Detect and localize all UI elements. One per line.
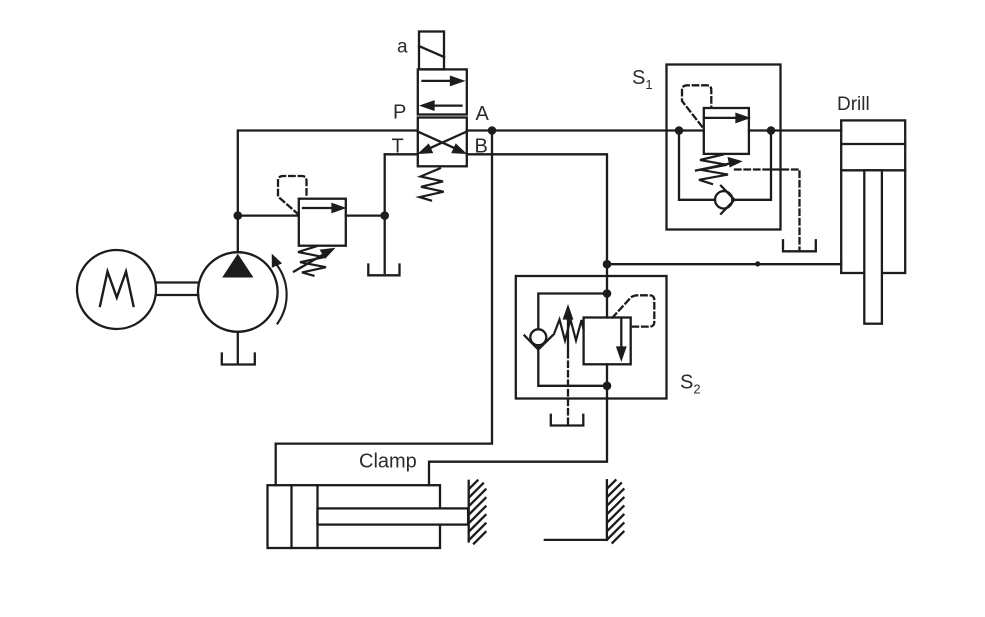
clamp cylinder body — [268, 485, 441, 548]
wire pump outlet to P port — [238, 131, 418, 253]
relief valve RV1 pilot line (dashed) — [278, 176, 307, 215]
node J4 (B line to drill rod end) — [603, 260, 612, 269]
clamp rod — [318, 508, 469, 524]
wire to drill rod end — [607, 263, 841, 265]
svg-text:Drill: Drill — [837, 94, 870, 115]
sequence valve S2 enclosure — [516, 276, 667, 399]
relief valve RV1 spring — [298, 246, 326, 275]
svg-text:Clamp: Clamp — [359, 451, 417, 473]
S2 bypass wire lower — [538, 345, 607, 386]
wire A port to S1 — [467, 129, 704, 131]
wire T port — [385, 153, 418, 155]
wire B line into S2 — [606, 264, 608, 317]
node J7 (S2 upper junction) — [603, 289, 612, 298]
tank T1 (pump suction) — [222, 354, 255, 365]
valve DV1 upper box (parallel arrows) — [418, 69, 467, 114]
svg-text:T: T — [392, 136, 404, 158]
svg-text:A: A — [476, 103, 490, 125]
S2 pilot line (dashed) — [613, 295, 655, 326]
tank T2 (T-port drain) — [368, 265, 399, 276]
tank T4 (S2 drain) — [551, 415, 584, 426]
S2 bypass wire — [538, 294, 607, 330]
valve DV1 spring — [420, 168, 444, 200]
node J1 (pump/relief tee) — [234, 211, 243, 220]
solenoid a — [419, 32, 444, 70]
S2 valve body — [584, 318, 631, 365]
relief valve RV1 body — [299, 199, 346, 246]
pump P1 — [198, 252, 278, 332]
node J8 (S2 lower junction) — [603, 382, 612, 391]
pump rotation arc — [273, 256, 287, 323]
drill rod — [864, 170, 882, 323]
svg-text:a: a — [397, 37, 408, 58]
S1 pilot line (dashed) — [682, 85, 711, 126]
S1 drain (dashed) — [735, 170, 800, 251]
S2 spring — [554, 320, 584, 341]
wire S2 outlet to clamp rod end — [429, 386, 607, 485]
svg-text:P: P — [393, 102, 406, 124]
node J3 (A junction) — [488, 126, 497, 135]
wire B port — [467, 154, 607, 264]
shaft motor-pump — [156, 283, 198, 296]
S1 spring — [699, 155, 728, 185]
valve DV1 lower box (crossed arrows) — [418, 118, 467, 167]
S2 check valve CV2 — [525, 329, 553, 349]
sequence valve S1 enclosure — [667, 65, 781, 230]
drill piston — [841, 144, 905, 170]
wire S1 to drill cap end — [749, 129, 841, 131]
wire A junction down to clamp cap end — [276, 131, 492, 486]
pump suction line — [237, 332, 239, 364]
S1 check valve CV1 — [715, 186, 735, 214]
relief valve RV1 arrow — [303, 204, 343, 211]
S1 valve body — [704, 108, 749, 154]
motor M — [77, 250, 156, 329]
node J9 (small tap on rod-end line) — [755, 261, 760, 266]
tank T3 (S1 drain) — [783, 240, 816, 251]
wire S2 valve outlet — [606, 364, 608, 386]
wire relief inlet — [238, 214, 299, 216]
S1 bypass wire right — [732, 131, 771, 200]
svg-text:S1: S1 — [632, 67, 653, 92]
S1 valve arrow — [706, 114, 748, 122]
S2 valve arrow — [618, 319, 626, 359]
clamp wall (workpiece) — [469, 481, 486, 544]
drill fixture wall — [607, 480, 624, 543]
svg-text:S2: S2 — [680, 372, 701, 397]
S1 adjust arrow — [696, 159, 740, 171]
node J6 (S1 right junction) — [767, 126, 776, 135]
relief valve RV1 adjust arrow — [294, 249, 333, 271]
S2 drain (dashed) — [567, 352, 569, 424]
drill cylinder body — [841, 120, 905, 273]
S1 bypass wire — [679, 131, 715, 200]
S2 adjust arrow — [564, 308, 572, 351]
clamp piston — [292, 485, 318, 548]
wire T drain vertical — [384, 154, 386, 273]
drill fixture table — [545, 539, 607, 541]
wire relief outlet — [346, 214, 385, 216]
node J2 (relief/T-drain tee) — [380, 211, 389, 220]
node J5 (S1 left junction) — [675, 126, 684, 135]
